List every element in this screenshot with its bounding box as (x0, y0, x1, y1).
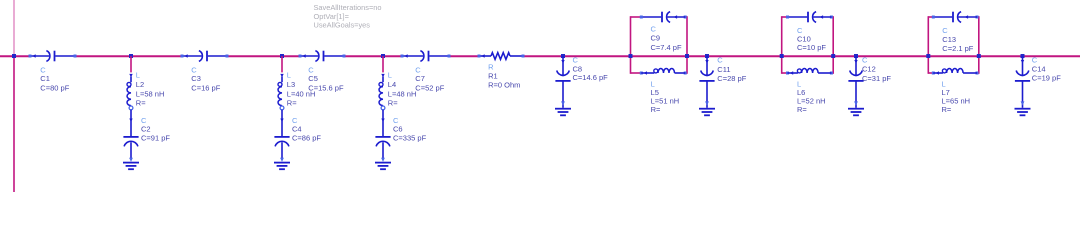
wire (shunt branch L4) (381, 54, 385, 58)
svg-text:OptVar[1]=: OptVar[1]= (314, 12, 349, 21)
svg-text:L=58 nH: L=58 nH (136, 89, 165, 98)
svg-text:C=80 pF: C=80 pF (40, 83, 69, 92)
svg-text:C: C (651, 24, 657, 33)
svg-text:C: C (942, 26, 948, 35)
svg-text:L: L (388, 71, 392, 80)
capacitor C3 (181, 51, 229, 62)
svg-text:C7: C7 (415, 74, 425, 83)
ground (C6) (375, 162, 391, 164)
capacitor C4 (274, 110, 290, 169)
wire (resonator loop C13/L7) (926, 16, 981, 74)
svg-text:C5: C5 (308, 74, 318, 83)
svg-text:C: C (393, 116, 399, 125)
svg-text:C=10 pF: C=10 pF (797, 43, 826, 52)
node (left junction) (12, 54, 16, 58)
capacitor C10 (786, 12, 833, 23)
resistor R1 (478, 53, 525, 60)
svg-text:C: C (141, 116, 147, 125)
svg-text:C: C (573, 55, 579, 64)
wire (shunt branch L2) (129, 54, 133, 58)
svg-text:C: C (292, 116, 298, 125)
capacitor C2 (123, 110, 139, 169)
svg-text:R: R (488, 62, 494, 71)
capacitor C13 (932, 12, 979, 23)
svg-text:C9: C9 (651, 33, 661, 42)
svg-text:L4: L4 (388, 80, 396, 89)
svg-text:C11: C11 (717, 65, 730, 74)
svg-text:UseAllGoals=yes: UseAllGoals=yes (314, 21, 371, 30)
wire (resonator loop C10/L6) (780, 16, 836, 74)
wire (left vertical net, upper) (13, 0, 15, 56)
svg-text:C12: C12 (862, 64, 876, 73)
svg-text:C14: C14 (1032, 64, 1046, 73)
wire (main horizontal net) (0, 55, 1080, 57)
svg-text:C=19 pF: C=19 pF (1032, 73, 1061, 82)
svg-text:L: L (287, 71, 291, 80)
ground (C4) (274, 162, 290, 164)
capacitor C11 (shunt) (699, 54, 715, 115)
svg-text:C=16 pF: C=16 pF (191, 83, 220, 92)
capacitor C1 (29, 51, 77, 62)
ground (C8) (555, 108, 571, 110)
capacitor C7 (401, 51, 451, 62)
ground (C2) (123, 162, 139, 164)
svg-text:C: C (862, 55, 868, 64)
svg-text:R=0 Ohm: R=0 Ohm (488, 80, 520, 89)
svg-text:C=52 pF: C=52 pF (415, 83, 444, 92)
inductor L4 (379, 74, 385, 110)
capacitor C5 (299, 51, 346, 62)
capacitor C12 (shunt) (848, 54, 864, 115)
optimization settings text (314, 3, 382, 30)
svg-text:R=: R= (942, 105, 952, 114)
inductor L3 (278, 74, 284, 110)
capacitor C14 (shunt) (1015, 54, 1031, 115)
inductor L6 (786, 69, 833, 75)
ground (C11) (699, 108, 715, 110)
svg-text:R1: R1 (488, 71, 498, 80)
capacitor C6 (375, 110, 391, 169)
svg-text:C3: C3 (191, 74, 201, 83)
svg-text:C=14.6 pF: C=14.6 pF (573, 73, 609, 82)
svg-text:R=: R= (651, 105, 661, 114)
svg-text:L=40 nH: L=40 nH (287, 89, 316, 98)
svg-text:L3: L3 (287, 80, 295, 89)
svg-text:L2: L2 (136, 80, 144, 89)
wire (shunt branch L3) (280, 54, 284, 58)
inductor L2 (127, 74, 133, 110)
svg-text:C8: C8 (573, 64, 583, 73)
svg-text:C=31 pF: C=31 pF (862, 74, 891, 83)
svg-text:L=48 nH: L=48 nH (388, 89, 417, 98)
svg-text:C: C (717, 55, 723, 64)
capacitor C8 (shunt) (555, 54, 571, 115)
ground (C12) (848, 108, 864, 110)
ground (C14) (1015, 108, 1031, 110)
svg-text:SaveAllIterations=no: SaveAllIterations=no (314, 3, 382, 12)
svg-text:C13: C13 (942, 35, 956, 44)
svg-text:C1: C1 (40, 74, 50, 83)
svg-text:L: L (136, 71, 140, 80)
capacitor C9 (640, 12, 687, 23)
svg-text:C=91 pF: C=91 pF (141, 133, 170, 142)
wire (left vertical net, lower) (13, 56, 15, 192)
svg-text:C=28 pF: C=28 pF (717, 74, 746, 83)
svg-text:R=: R= (287, 99, 297, 108)
svg-text:R=: R= (388, 99, 398, 108)
wire (resonator loop C9/L5) (629, 16, 690, 74)
svg-text:C=7.4 pF: C=7.4 pF (651, 43, 682, 52)
svg-text:R=: R= (136, 99, 146, 108)
inductor L5 (640, 69, 687, 75)
inductor L7 (932, 69, 979, 75)
svg-text:R=: R= (797, 105, 807, 114)
svg-text:C=335 pF: C=335 pF (393, 133, 427, 142)
svg-text:C=2.1 pF: C=2.1 pF (942, 44, 973, 53)
svg-text:C=86 pF: C=86 pF (292, 133, 321, 142)
